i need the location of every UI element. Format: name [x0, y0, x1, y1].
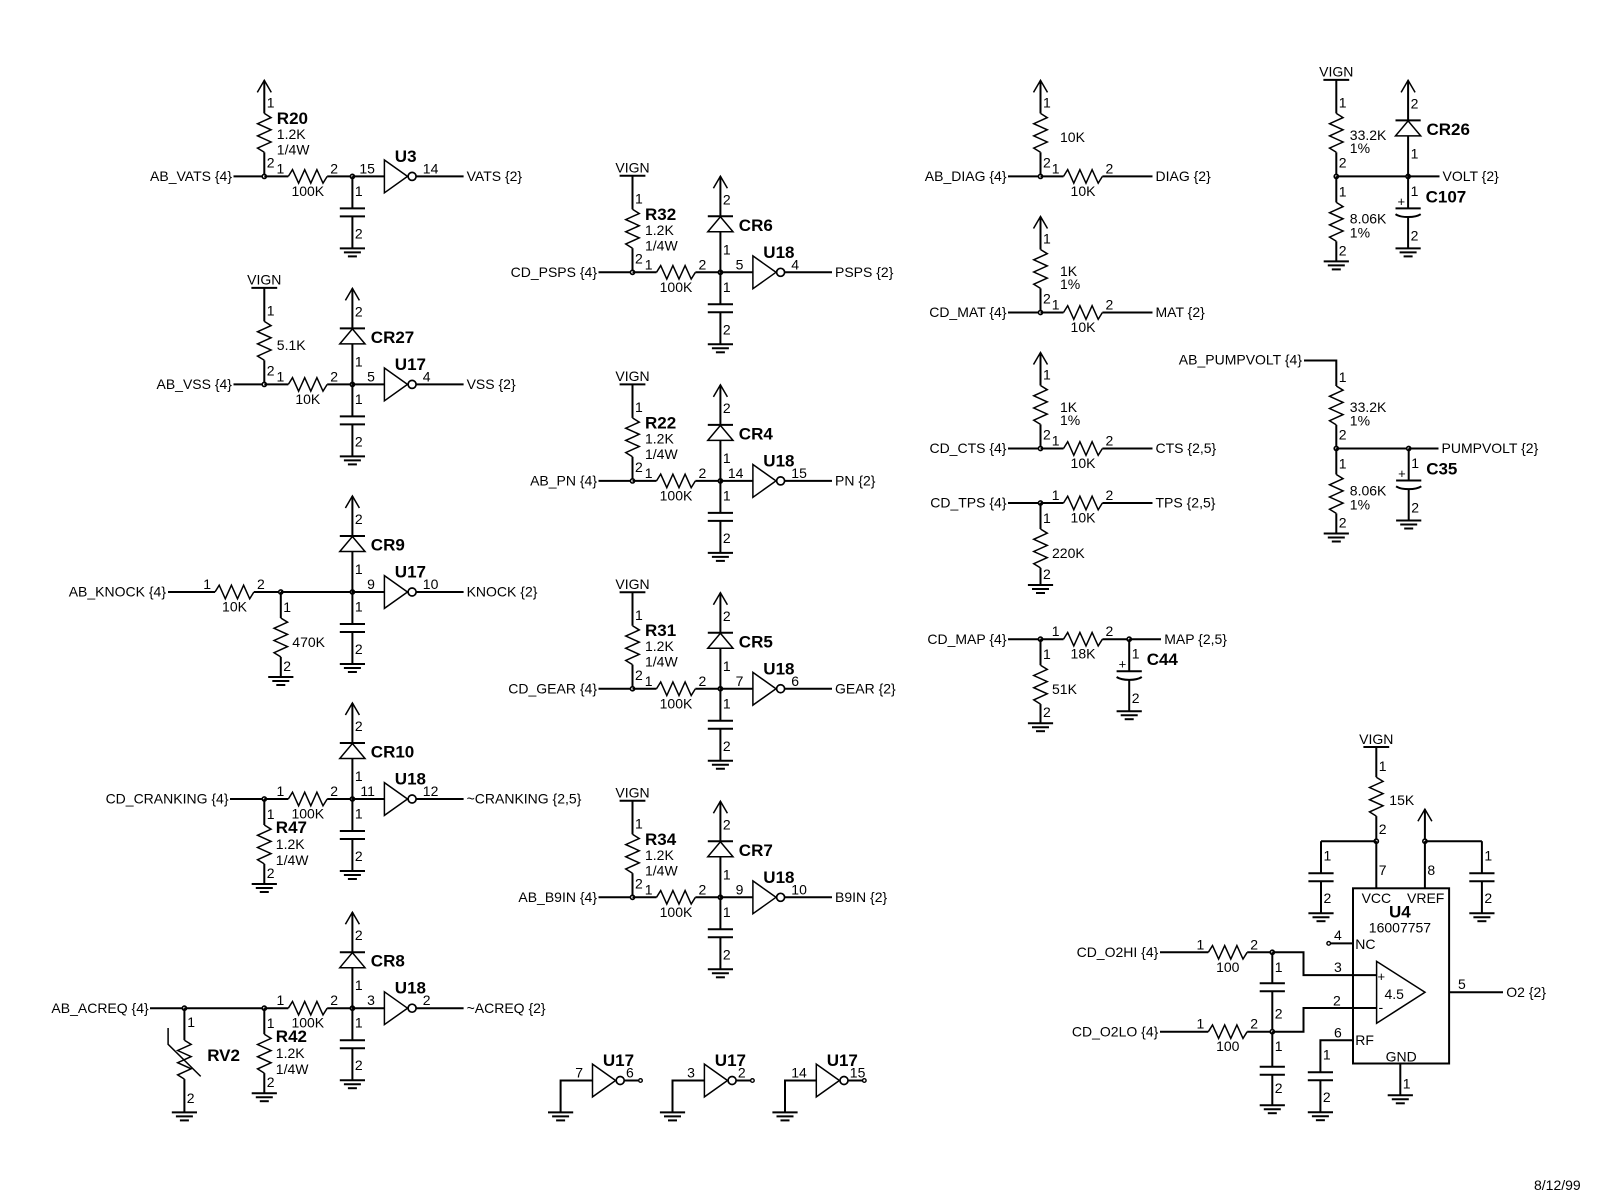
svg-text:2: 2 [257, 576, 265, 592]
svg-text:CR5: CR5 [739, 632, 773, 651]
svg-text:100K: 100K [291, 1015, 324, 1031]
svg-text:2: 2 [1106, 297, 1114, 313]
inverter U18 [360, 770, 438, 816]
junction [718, 895, 722, 899]
svg-text:6: 6 [791, 673, 799, 689]
wire [264, 175, 288, 177]
svg-text:2: 2 [723, 530, 731, 546]
svg-text:5: 5 [367, 368, 375, 384]
ground [548, 1112, 573, 1120]
svg-text:1/4W: 1/4W [645, 237, 678, 253]
wire (pin 6) [1320, 1040, 1353, 1072]
inverter U3 [359, 147, 438, 193]
svg-text:GND: GND [1386, 1049, 1417, 1065]
wire [150, 1007, 184, 1009]
svg-text:2: 2 [1250, 936, 1258, 952]
svg-text:2: 2 [738, 1065, 746, 1081]
svg-text:2: 2 [187, 1090, 195, 1106]
wire [352, 798, 384, 800]
capacitor [708, 689, 733, 761]
svg-text:4: 4 [423, 368, 431, 384]
VIGN power flag [247, 272, 281, 288]
svg-text:AB_KNOCK {4}: AB_KNOCK {4} [69, 584, 167, 600]
svg-text:+: + [1398, 194, 1406, 209]
wire [281, 591, 353, 593]
inverter U17 [367, 355, 431, 401]
ground [1308, 1112, 1333, 1120]
svg-text:2: 2 [1339, 427, 1347, 443]
svg-text:2: 2 [1484, 890, 1492, 906]
diode CR6 [708, 191, 773, 272]
capacitor [1308, 841, 1333, 913]
svg-text:2: 2 [1275, 1006, 1283, 1022]
svg-text:2: 2 [330, 368, 338, 384]
svg-text:4: 4 [791, 256, 799, 272]
power arrow (VREF) [1418, 809, 1432, 841]
svg-text:1: 1 [283, 599, 291, 615]
svg-text:2: 2 [1379, 821, 1387, 837]
svg-text:2: 2 [1411, 227, 1419, 243]
svg-text:CR8: CR8 [371, 952, 405, 971]
svg-text:1: 1 [645, 881, 653, 897]
svg-text:1/4W: 1/4W [277, 141, 310, 157]
svg-text:1: 1 [1339, 183, 1347, 199]
svg-text:2: 2 [699, 256, 707, 272]
svg-text:12: 12 [423, 783, 439, 799]
resistor R34 [626, 801, 679, 898]
svg-text:1.2K: 1.2K [276, 836, 305, 852]
junction [350, 797, 354, 801]
junction [718, 687, 722, 691]
svg-text:100: 100 [1216, 1038, 1240, 1054]
svg-text:1: 1 [355, 183, 363, 199]
wire [1008, 502, 1041, 504]
junction [1270, 950, 1274, 954]
svg-text:CR27: CR27 [371, 328, 414, 347]
svg-text:2: 2 [635, 250, 643, 266]
ground [1324, 261, 1349, 269]
svg-text:2: 2 [1250, 1016, 1258, 1032]
inverter U18 [367, 979, 431, 1025]
svg-text:1: 1 [723, 866, 731, 882]
svg-text:2: 2 [1339, 242, 1347, 258]
svg-text:2: 2 [267, 1074, 275, 1090]
svg-text:O2 {2}: O2 {2} [1506, 984, 1546, 1000]
svg-text:2: 2 [723, 321, 731, 337]
svg-text:10K: 10K [295, 391, 321, 407]
wire (GND pin 1) [1399, 1064, 1401, 1096]
svg-text:2: 2 [699, 465, 707, 481]
resistor 8.06K [1330, 449, 1387, 534]
wire [352, 591, 384, 593]
svg-text:CD_O2LO {4}: CD_O2LO {4} [1072, 1023, 1159, 1039]
junction [1038, 446, 1042, 450]
power arrow [1034, 80, 1048, 113]
svg-text:1: 1 [645, 465, 653, 481]
wire [1160, 951, 1208, 953]
capacitor [1469, 841, 1494, 913]
svg-text:470K: 470K [292, 634, 325, 650]
svg-text:1.2K: 1.2K [645, 430, 674, 446]
svg-text:2: 2 [355, 511, 363, 527]
svg-text:1: 1 [355, 391, 363, 407]
svg-text:1: 1 [723, 904, 731, 920]
wire [327, 1007, 352, 1009]
svg-text:1: 1 [355, 977, 363, 993]
svg-text:1%: 1% [1350, 413, 1370, 429]
wire (spare input) [561, 1081, 593, 1113]
svg-text:1: 1 [355, 1015, 363, 1031]
wire [327, 175, 352, 177]
junction [1407, 446, 1411, 450]
resistor R42 [258, 1008, 310, 1093]
svg-text:2: 2 [283, 658, 291, 674]
svg-text:5: 5 [736, 256, 744, 272]
ground [1396, 248, 1421, 256]
svg-text:CD_PSPS {4}: CD_PSPS {4} [511, 264, 598, 280]
inverter U17 [687, 1051, 746, 1097]
svg-text:1: 1 [1043, 94, 1051, 110]
svg-text:2: 2 [699, 881, 707, 897]
svg-text:VREF: VREF [1407, 890, 1444, 906]
svg-text:10K: 10K [222, 599, 248, 615]
svg-text:2: 2 [355, 433, 363, 449]
wire [1102, 502, 1152, 504]
inverter U18 [736, 243, 800, 289]
wire (spare output) [624, 1080, 638, 1082]
svg-text:1: 1 [1052, 297, 1060, 313]
svg-text:1: 1 [1411, 145, 1419, 161]
svg-text:VIGN: VIGN [615, 160, 649, 176]
svg-text:8: 8 [1427, 862, 1435, 878]
svg-text:U18: U18 [395, 979, 426, 998]
junction [1038, 174, 1042, 178]
power arrow [345, 288, 359, 328]
svg-text:1/4W: 1/4W [276, 852, 309, 868]
wire [416, 798, 464, 800]
wire (spare input) [673, 1081, 705, 1113]
resistor 1K pull-up [1034, 367, 1080, 449]
svg-text:1/4W: 1/4W [645, 862, 678, 878]
ground [708, 344, 733, 352]
svg-text:1.2K: 1.2K [645, 222, 674, 238]
svg-text:2: 2 [723, 400, 731, 416]
svg-text:-: - [1379, 999, 1384, 1015]
wire [1102, 448, 1152, 450]
varistor RV2 [168, 1008, 240, 1112]
wire [234, 175, 265, 177]
power arrow [345, 912, 359, 952]
svg-text:PSPS {2}: PSPS {2} [835, 264, 894, 280]
svg-text:CR9: CR9 [371, 536, 405, 555]
svg-text:51K: 51K [1052, 681, 1078, 697]
inverter U17 [791, 1051, 865, 1097]
VIGN power flag [615, 785, 649, 801]
U4 pin names [1355, 890, 1444, 1065]
svg-text:2: 2 [267, 865, 275, 881]
svg-text:2: 2 [1106, 433, 1114, 449]
svg-text:VIGN: VIGN [615, 576, 649, 592]
svg-text:1: 1 [267, 806, 275, 822]
svg-text:CD_MAT {4}: CD_MAT {4} [929, 304, 1007, 320]
svg-text:2: 2 [423, 992, 431, 1008]
svg-text:CD_O2HI {4}: CD_O2HI {4} [1077, 944, 1159, 960]
op-amp triangle (4.5) [1377, 961, 1425, 1023]
svg-text:+: + [1119, 657, 1127, 672]
svg-text:1%: 1% [1060, 276, 1080, 292]
svg-text:3: 3 [367, 992, 375, 1008]
wire [1247, 1031, 1272, 1033]
diode CR9 [340, 511, 405, 592]
junction [262, 1006, 266, 1010]
svg-text:1: 1 [635, 815, 643, 831]
svg-text:1: 1 [635, 190, 643, 206]
svg-text:7: 7 [575, 1065, 583, 1081]
resistor 470K [274, 592, 326, 677]
resistor R31 [626, 592, 679, 689]
svg-text:10: 10 [423, 576, 439, 592]
wire [327, 383, 352, 385]
svg-text:220K: 220K [1052, 545, 1085, 561]
svg-text:7: 7 [736, 673, 744, 689]
wire [720, 688, 753, 690]
svg-text:CR6: CR6 [739, 216, 773, 235]
svg-text:2: 2 [635, 667, 643, 683]
svg-text:1: 1 [723, 279, 731, 295]
wire [1321, 840, 1376, 842]
svg-text:PN {2}: PN {2} [835, 473, 876, 489]
power arrow [713, 801, 727, 841]
svg-text:1: 1 [187, 1014, 195, 1030]
svg-text:8/12/99: 8/12/99 [1534, 1177, 1581, 1193]
resistor 10K [1052, 433, 1114, 472]
svg-text:1: 1 [1339, 369, 1347, 385]
svg-text:2: 2 [355, 927, 363, 943]
junction [262, 382, 266, 386]
svg-text:CD_MAP {4}: CD_MAP {4} [927, 631, 1006, 647]
capacitor C44 [1117, 639, 1179, 711]
wire [168, 591, 215, 593]
svg-text:100K: 100K [291, 806, 324, 822]
svg-text:1: 1 [267, 94, 275, 110]
wire [785, 480, 832, 482]
svg-text:1: 1 [1197, 1016, 1205, 1032]
svg-text:VSS {2}: VSS {2} [467, 376, 516, 392]
junction [630, 895, 634, 899]
wire [633, 480, 657, 482]
resistor R47 [258, 799, 310, 884]
capacitor C35 [1396, 449, 1457, 521]
resistor 10K [1052, 487, 1114, 526]
svg-text:2: 2 [1411, 95, 1419, 111]
wire [352, 383, 384, 385]
svg-text:1: 1 [645, 673, 653, 689]
junction [182, 1006, 186, 1010]
diode CR26 [1396, 95, 1470, 176]
svg-text:2: 2 [635, 459, 643, 475]
resistor 33.2K [1330, 369, 1387, 449]
svg-text:VIGN: VIGN [615, 368, 649, 384]
junction [1374, 839, 1378, 843]
wire [352, 1007, 384, 1009]
wire [633, 896, 657, 898]
VIGN power flag [1359, 731, 1393, 747]
svg-text:16007757: 16007757 [1369, 920, 1432, 936]
wire (spare output) [736, 1080, 750, 1082]
svg-text:2: 2 [1106, 623, 1114, 639]
svg-text:U18: U18 [763, 243, 794, 262]
svg-text:6: 6 [1334, 1025, 1342, 1041]
svg-text:100K: 100K [660, 279, 693, 295]
power arrow [345, 496, 359, 536]
junction [1038, 310, 1042, 314]
svg-text:4.5: 4.5 [1385, 986, 1405, 1002]
resistor R22 [626, 384, 679, 481]
power arrow [713, 593, 727, 633]
svg-text:2: 2 [723, 608, 731, 624]
svg-text:1: 1 [645, 256, 653, 272]
ground [660, 1112, 685, 1120]
wire [785, 271, 832, 273]
svg-text:VIGN: VIGN [247, 272, 281, 288]
svg-text:4: 4 [1334, 927, 1342, 943]
wire [720, 896, 753, 898]
capacitor [708, 272, 733, 344]
junction [1423, 839, 1427, 843]
svg-text:100K: 100K [291, 183, 324, 199]
wire (pin 3) [1272, 952, 1376, 975]
svg-text:CD_GEAR {4}: CD_GEAR {4} [508, 680, 597, 696]
svg-text:1/4W: 1/4W [276, 1061, 309, 1077]
svg-text:1: 1 [355, 599, 363, 615]
svg-text:2: 2 [355, 848, 363, 864]
wire (RF cap lead) [1319, 1080, 1321, 1112]
junction [630, 270, 634, 274]
power arrow [1034, 353, 1048, 386]
svg-text:10K: 10K [1071, 510, 1097, 526]
junction [718, 270, 722, 274]
svg-text:KNOCK {2}: KNOCK {2} [467, 584, 538, 600]
svg-text:1/4W: 1/4W [645, 654, 678, 670]
wire [1041, 175, 1064, 177]
diode CR4 [708, 400, 774, 481]
svg-text:2: 2 [1043, 154, 1051, 170]
resistor 100K [277, 992, 339, 1030]
svg-text:2: 2 [1043, 427, 1051, 443]
svg-text:2: 2 [355, 1057, 363, 1073]
junction [1334, 446, 1338, 450]
wire [1041, 638, 1064, 640]
resistor 100 [1197, 936, 1259, 975]
svg-text:1: 1 [355, 768, 363, 784]
ground [772, 1112, 797, 1120]
wire [1041, 502, 1064, 504]
svg-text:U17: U17 [395, 355, 426, 374]
svg-text:2: 2 [330, 992, 338, 1008]
resistor 100K [645, 465, 707, 504]
power arrow [257, 80, 271, 113]
svg-text:1: 1 [355, 353, 363, 369]
svg-text:100K: 100K [660, 695, 693, 711]
diode CR10 [340, 718, 414, 799]
svg-text:1: 1 [1324, 848, 1332, 864]
wire [1247, 951, 1272, 953]
svg-text:2: 2 [355, 225, 363, 241]
svg-text:RV2: RV2 [207, 1046, 240, 1065]
svg-text:9: 9 [736, 881, 744, 897]
svg-text:14: 14 [728, 465, 744, 481]
power arrow [1401, 80, 1415, 120]
junction [1270, 1030, 1274, 1034]
wire [1008, 175, 1041, 177]
svg-text:15K: 15K [1389, 792, 1415, 808]
svg-text:1: 1 [277, 783, 285, 799]
wire [184, 1007, 264, 1009]
wire [599, 480, 633, 482]
svg-text:CD_CTS {4}: CD_CTS {4} [929, 440, 1006, 456]
junction [262, 174, 266, 178]
capacitor C107 [1396, 176, 1467, 248]
junction [718, 479, 722, 483]
svg-text:14: 14 [791, 1065, 807, 1081]
junction [262, 797, 266, 801]
wire [785, 688, 832, 690]
ground [1308, 913, 1333, 921]
svg-text:9: 9 [367, 576, 375, 592]
wire [1304, 361, 1336, 387]
svg-text:DIAG {2}: DIAG {2} [1156, 168, 1212, 184]
wire (pin 2) [1272, 1008, 1376, 1032]
wire [1008, 312, 1041, 314]
resistor 10K [203, 576, 265, 615]
capacitor (RF) [1308, 1047, 1333, 1105]
resistor 100 [1197, 1016, 1259, 1055]
svg-text:1.2K: 1.2K [645, 847, 674, 863]
svg-text:1%: 1% [1350, 497, 1370, 513]
ground [708, 969, 733, 977]
no-connect [639, 1079, 643, 1083]
resistor 10K [1052, 297, 1114, 336]
svg-text:U18: U18 [395, 770, 426, 789]
junction [1038, 637, 1042, 641]
svg-text:1: 1 [277, 160, 285, 176]
inverter U18 [736, 659, 800, 705]
ground [1388, 1095, 1413, 1103]
svg-text:1: 1 [1132, 646, 1140, 662]
svg-text:VIGN: VIGN [1319, 64, 1353, 80]
wire [720, 480, 753, 482]
svg-text:18K: 18K [1071, 646, 1097, 662]
resistor 10K [1052, 160, 1114, 199]
junction [1406, 174, 1410, 178]
power arrow [713, 385, 727, 425]
svg-text:NC: NC [1355, 936, 1375, 952]
wire [633, 271, 657, 273]
svg-text:1: 1 [1275, 1038, 1283, 1054]
resistor 8.06K [1330, 176, 1387, 261]
svg-text:1: 1 [635, 607, 643, 623]
svg-text:2: 2 [355, 718, 363, 734]
resistor 100K [277, 160, 339, 199]
svg-text:1: 1 [1052, 623, 1060, 639]
svg-text:3: 3 [1334, 959, 1342, 975]
svg-text:2: 2 [723, 816, 731, 832]
svg-text:2: 2 [1339, 515, 1347, 531]
resistor 100K [277, 783, 339, 822]
diode CR7 [708, 816, 773, 897]
junction [630, 687, 634, 691]
svg-text:2: 2 [1323, 1089, 1331, 1105]
